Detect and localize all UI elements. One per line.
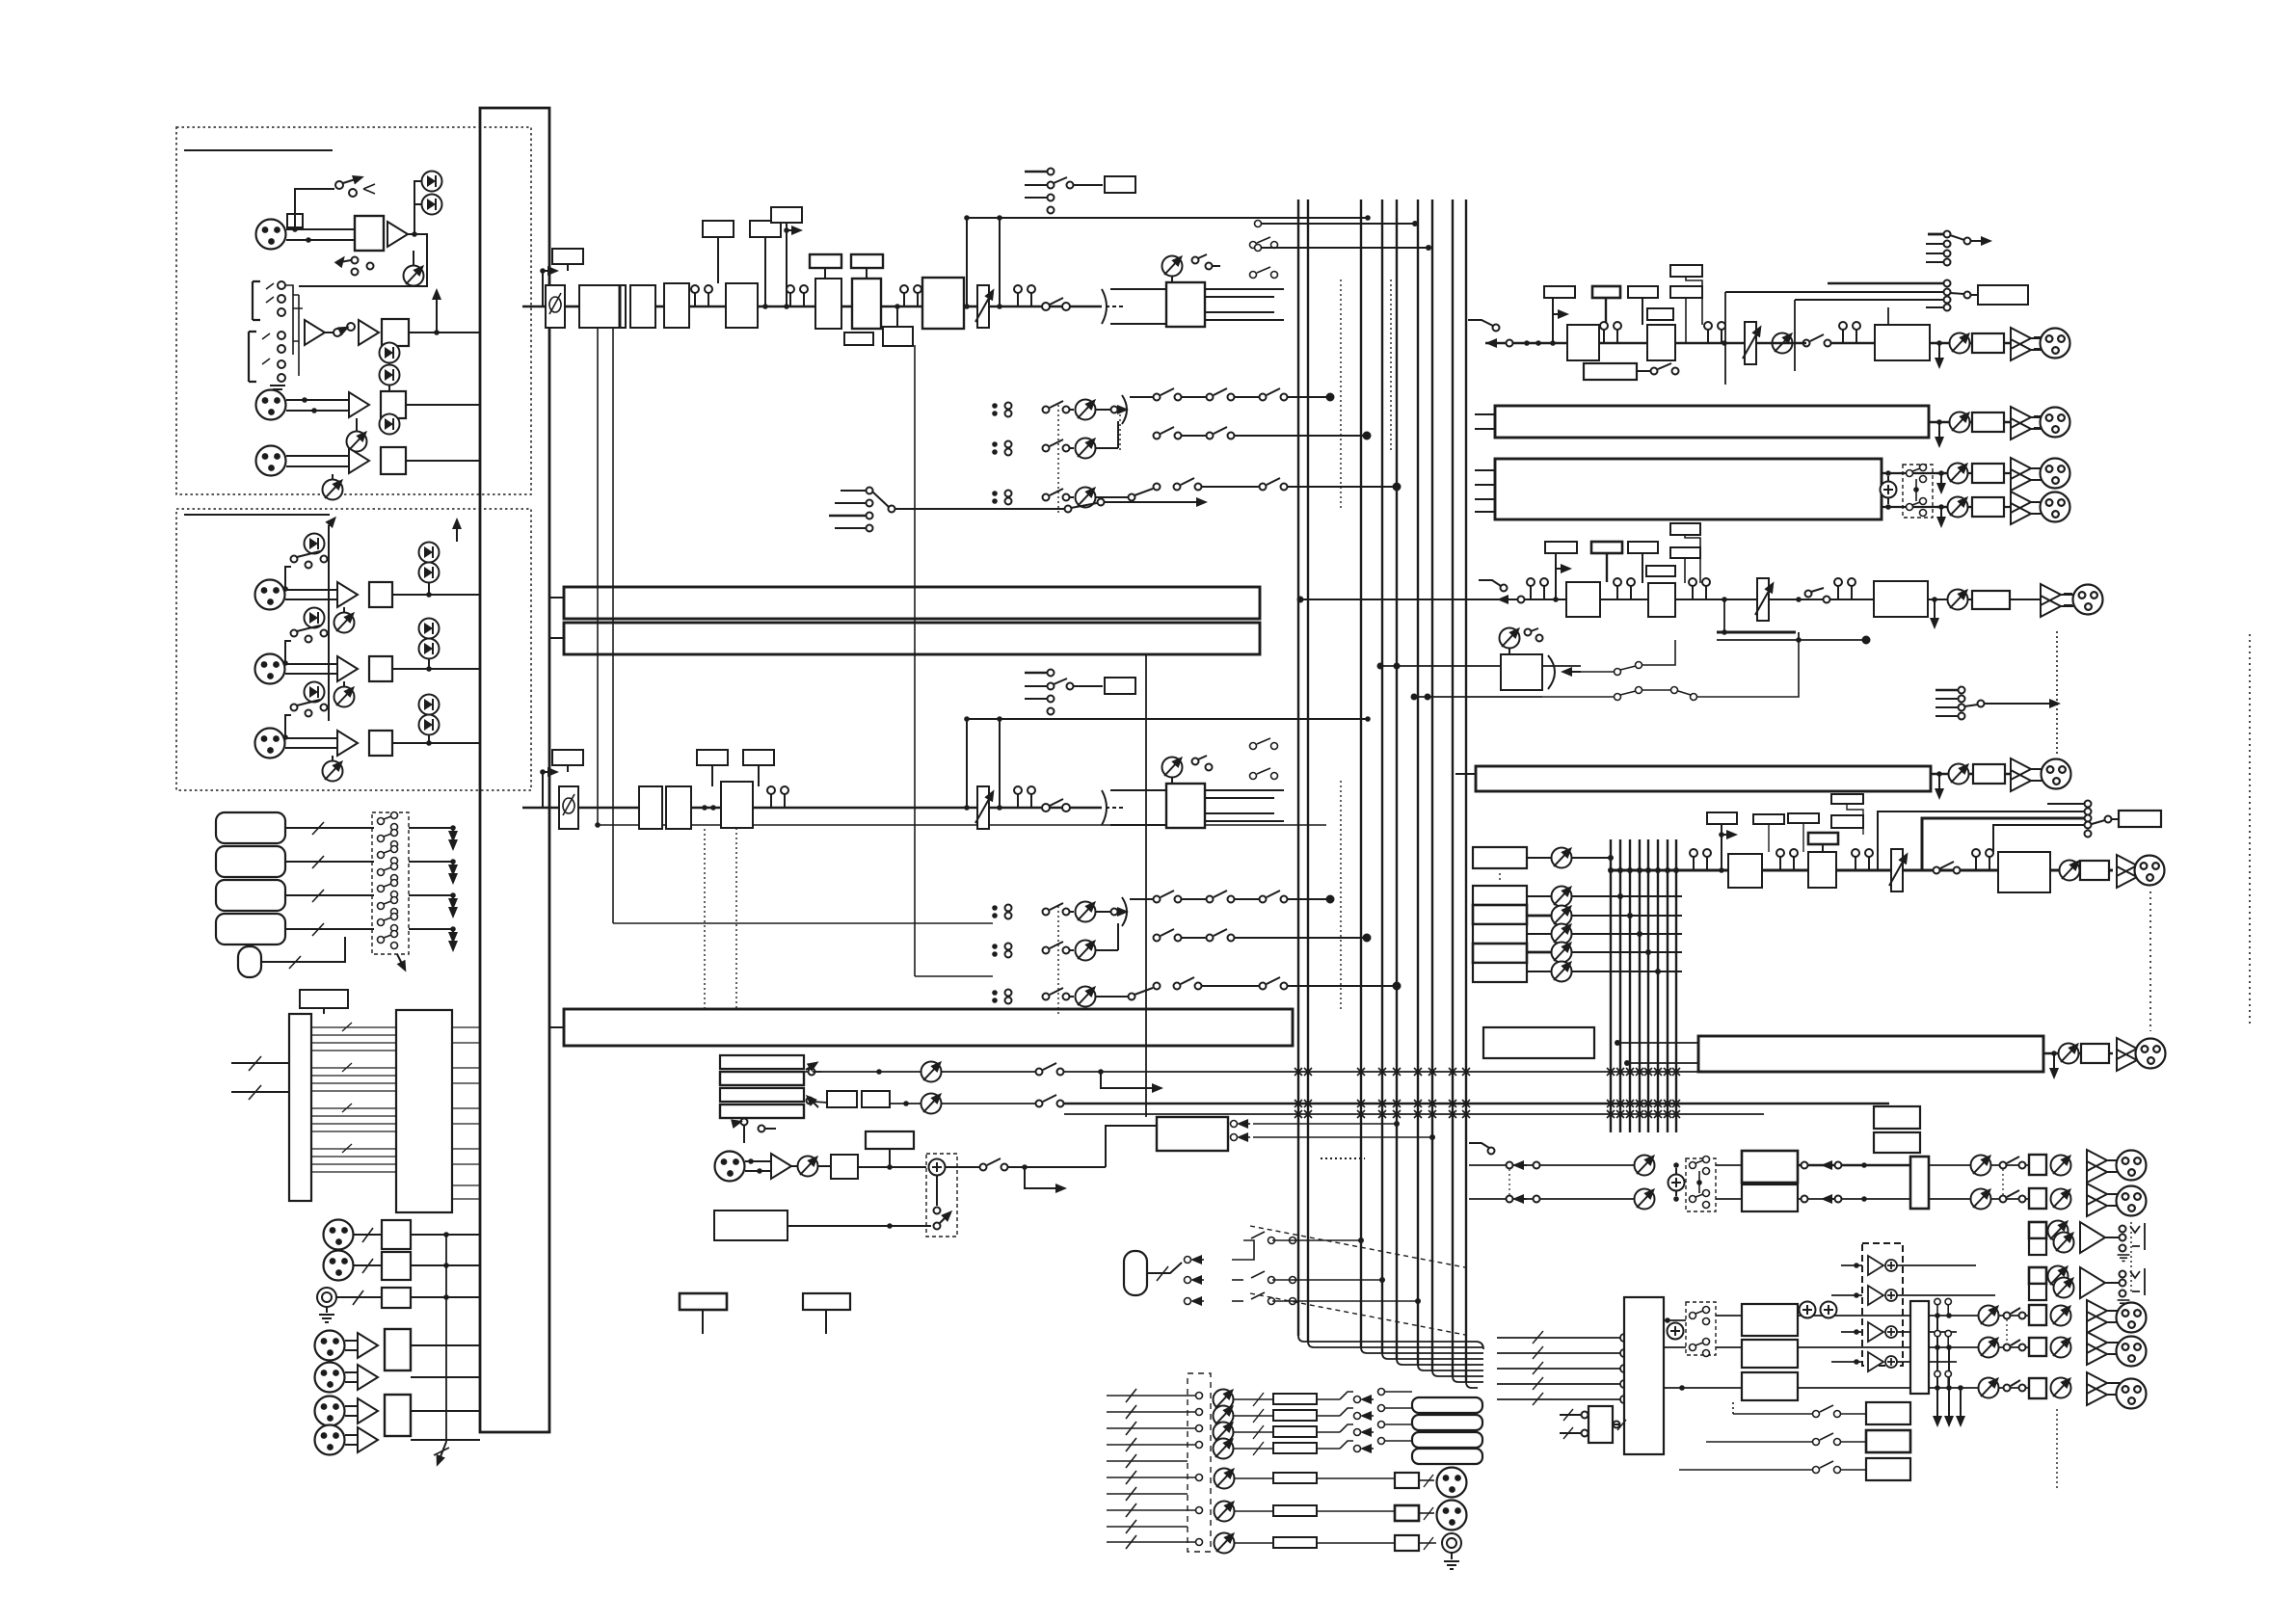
- fader ST: [1889, 849, 1907, 891]
- op-amp A3: [359, 320, 379, 345]
- out chains upper: [1929, 1164, 2029, 1166]
- wire w/ test points: [689, 306, 726, 308]
- switch: [1803, 340, 1810, 347]
- ext in block: [1589, 1406, 1613, 1443]
- wire: [286, 228, 355, 230]
- connector XLR MON B: [2117, 1186, 2147, 1216]
- card slot 2: [216, 846, 285, 877]
- wire pill: [261, 937, 345, 962]
- jack wordclock: [317, 1288, 336, 1307]
- wire card4: [285, 928, 374, 930]
- insert jack TRS2: [249, 332, 256, 382]
- block: [369, 656, 392, 681]
- switch monitor labels: [1679, 1400, 1866, 1474]
- block: [666, 786, 691, 829]
- label box w/ arrow: [771, 207, 802, 223]
- block comp: [1566, 582, 1600, 617]
- op-amp B1: [337, 582, 358, 607]
- label boxes: [1874, 1106, 1920, 1129]
- dashed dim box upper: [1686, 1158, 1716, 1211]
- block ST comp: [1728, 854, 1762, 888]
- connector XLR CR C: [2117, 1379, 2147, 1409]
- block TB: [831, 1155, 858, 1179]
- wire: [392, 594, 480, 596]
- monitor out upper path: [1469, 1164, 1635, 1166]
- wire: [964, 306, 977, 308]
- block: [382, 1220, 411, 1249]
- driver: [2011, 328, 2043, 360]
- connector XLR J3: [256, 446, 286, 476]
- switch matrix link: [1907, 465, 1927, 517]
- wire: [1930, 342, 2011, 344]
- label box: [750, 221, 781, 237]
- label box: [851, 254, 883, 268]
- wire harness matrix-CPU: [311, 1023, 396, 1172]
- switch bus assign 2: [1250, 738, 1278, 780]
- bold assign wires: [1717, 631, 1796, 634]
- main I/O block U100: [480, 108, 549, 1432]
- block ST eq: [1808, 852, 1836, 888]
- block insert2: [1105, 678, 1135, 694]
- fader: [975, 285, 993, 328]
- wire: [285, 589, 337, 591]
- label box bold: [1808, 833, 1838, 844]
- title underline: [184, 514, 330, 516]
- label box comm A: [680, 1293, 727, 1310]
- trim blocks 2-6: [1473, 886, 1527, 905]
- routing from blocks: [1798, 1164, 1910, 1167]
- wire: [285, 737, 337, 739]
- card slot 3: [216, 880, 285, 911]
- op-amp: [358, 1398, 378, 1423]
- pot: [334, 613, 355, 633]
- wire card1: [285, 827, 374, 829]
- bus bar AUX1: [1495, 406, 1929, 438]
- wire: [409, 332, 480, 333]
- bus bar GROUP2: [564, 623, 1260, 654]
- LED pair: [419, 695, 440, 715]
- bus wire vertical: [328, 525, 330, 721]
- switch mode selector: [829, 488, 1205, 532]
- label box: [1831, 815, 1863, 828]
- label box: [300, 990, 348, 1008]
- ground: [270, 386, 285, 393]
- block PAN: [1166, 282, 1205, 327]
- wire: [655, 306, 664, 308]
- op-amp B2: [337, 656, 358, 681]
- card slot 1: [216, 812, 285, 843]
- aux monitor select rows: [2047, 803, 2084, 805]
- block aux small: [844, 333, 873, 345]
- LED pair: [380, 414, 400, 435]
- block AES: [385, 1329, 411, 1370]
- block link: [1584, 363, 1637, 380]
- label box: [552, 249, 583, 264]
- wire: [408, 233, 418, 235]
- pill connector: [238, 946, 261, 977]
- block ST bal: [1998, 852, 2050, 892]
- label box: [703, 221, 734, 237]
- phase block: [546, 285, 565, 328]
- pan feed curve: [1102, 289, 1107, 324]
- matrix block: [1495, 459, 1882, 519]
- op-amp 2TR drivers: [1831, 1256, 1995, 1371]
- LED pair: [380, 343, 400, 363]
- dotted leader: [2056, 631, 2058, 754]
- mono bus bar: [1698, 1036, 2043, 1072]
- connector XLR MON A: [2117, 1151, 2147, 1181]
- wire matrix input rows: [1107, 1389, 1203, 1549]
- pot: [323, 761, 343, 782]
- LED: [305, 682, 325, 703]
- wire insert bus: [285, 285, 303, 355]
- wire: [841, 306, 852, 308]
- resistor network rows: [1234, 1393, 1317, 1548]
- block GEQ: [1874, 581, 1928, 617]
- toggle arrow: [397, 954, 405, 970]
- OR combiner: [1501, 654, 1542, 690]
- connector XLR J5: [255, 654, 285, 684]
- pan feed curve: [1102, 790, 1107, 825]
- block: [1972, 591, 2010, 609]
- LED SIG1: [422, 195, 442, 215]
- wire: [325, 332, 334, 333]
- connector XLR AUXM: [2073, 585, 2103, 615]
- block aux mon: [2119, 811, 2161, 827]
- wire: [406, 460, 480, 462]
- block AES2: [385, 1395, 411, 1436]
- aux send 1 row: [992, 388, 1333, 424]
- pan pot: [1162, 758, 1183, 778]
- title underline: [184, 149, 333, 151]
- pan pot: [1162, 256, 1183, 277]
- meter block: [1483, 1027, 1594, 1058]
- aux insert cluster: [1936, 689, 1958, 692]
- stub wires into bar: [1475, 413, 1495, 415]
- bus wires group A: [1298, 200, 1466, 1382]
- ST labels extra: [1753, 814, 1784, 824]
- comm bar 1: [720, 1055, 804, 1069]
- pot: [1950, 333, 1970, 354]
- aux send 4 row: [992, 891, 1333, 926]
- connector XLR J10: [324, 1220, 354, 1250]
- block: [1395, 1473, 1419, 1488]
- wire: [286, 399, 349, 401]
- block ATT: [726, 283, 758, 328]
- block comp: [1567, 325, 1599, 360]
- connector XLR CR A: [2117, 1303, 2147, 1333]
- label box: [1670, 523, 1700, 535]
- label box: [1592, 286, 1620, 298]
- block eq: [1647, 325, 1675, 360]
- strip1 outputs to bus: [1205, 288, 1284, 290]
- switch: [291, 630, 298, 637]
- external port lines: [231, 1062, 289, 1064]
- wire bus input rows: [1255, 221, 1432, 252]
- connector XLR J2: [256, 390, 286, 420]
- wire: [406, 404, 480, 406]
- sum: [1882, 472, 1950, 474]
- up arrow feed: [456, 520, 458, 542]
- label box low: [1647, 308, 1673, 320]
- block: [381, 447, 406, 474]
- mono input group dashed box: [176, 127, 531, 494]
- insert selector 2: [1025, 672, 1047, 675]
- buffer column block: [289, 1014, 311, 1201]
- transformer T1: [355, 216, 384, 251]
- dashed trim box: [1188, 1373, 1211, 1552]
- comm bar 2: [720, 1072, 804, 1085]
- switch comm assign: [1231, 1121, 1436, 1141]
- aux send 6 row: [992, 977, 1400, 1007]
- pad resistor: [287, 214, 303, 227]
- block rec: [1978, 285, 2028, 305]
- aux send 2 row: [992, 421, 1370, 459]
- connector XLR TB: [715, 1152, 745, 1182]
- block: [369, 731, 392, 756]
- switch above: [741, 1119, 748, 1126]
- aux send 3 row: [992, 478, 1400, 508]
- wire: [285, 663, 337, 665]
- wire TB out: [946, 1166, 979, 1168]
- connector XLR J1: [256, 220, 286, 250]
- block: [639, 786, 662, 829]
- wire: [392, 668, 480, 670]
- comm bar 3: [720, 1088, 804, 1102]
- connector XLR CR B: [2117, 1337, 2147, 1367]
- monitor lower paths: [1664, 1319, 1686, 1321]
- connector XLR MTXO2: [1437, 1501, 1467, 1530]
- op-amp A4: [349, 392, 369, 417]
- op-amp TB: [771, 1154, 791, 1179]
- dashed dim box lower: [1686, 1302, 1716, 1355]
- connector XLR MTXO1: [1437, 1468, 1467, 1498]
- tall block lower: [1910, 1301, 1929, 1394]
- connector XLR ST: [2135, 856, 2165, 886]
- wire bus bends: [1298, 1336, 1483, 1388]
- label box: [552, 750, 583, 765]
- strip1 down-feeds: [597, 328, 599, 825]
- LED pair: [419, 619, 440, 639]
- wire: [295, 189, 334, 229]
- 2TR rec dashed box: [1862, 1243, 1903, 1366]
- monitor selector cluster: [1928, 233, 1943, 236]
- switch pad: [335, 181, 343, 189]
- row B: [807, 1098, 814, 1104]
- LED: [305, 608, 325, 628]
- block: [382, 1252, 411, 1280]
- op-amp B3: [337, 731, 358, 756]
- direct out wire 2: [967, 718, 1368, 720]
- fader: [975, 786, 993, 829]
- bus bar MIX: [564, 1009, 1293, 1046]
- comm bar 4: [720, 1104, 804, 1118]
- op-amp A2: [305, 320, 325, 345]
- out rows to connectors: [1317, 1477, 1395, 1479]
- rec selector cluster: [1828, 282, 1943, 285]
- row A: [804, 1071, 821, 1073]
- tall block CR level: [1910, 1157, 1929, 1209]
- bus bar GROUP1: [564, 587, 1260, 619]
- wire: [758, 306, 815, 308]
- fader: [1743, 322, 1760, 364]
- switch dim upper: [1690, 1157, 1710, 1209]
- block below: [883, 327, 913, 346]
- label box: [1544, 286, 1575, 298]
- label box: [1628, 542, 1658, 553]
- wire: [392, 742, 480, 744]
- dashed link box: [1903, 465, 1933, 518]
- pot: [2060, 861, 2080, 881]
- mono input group 2 dashed box: [176, 509, 531, 790]
- block: [2080, 861, 2109, 880]
- connector XLR J6: [255, 729, 285, 758]
- connector XLR J11: [324, 1251, 354, 1281]
- connector XLR AUX2: [2042, 759, 2071, 789]
- block: [664, 283, 689, 328]
- connector XLR J14: [315, 1397, 345, 1426]
- pot: [1773, 333, 1793, 354]
- connector XLR MONO: [2136, 1039, 2166, 1069]
- wire outs with arrows: [409, 827, 453, 829]
- osc pill: [1124, 1251, 1147, 1295]
- wire: [753, 807, 977, 810]
- out chains lower: [1929, 1315, 2029, 1317]
- sync bus vertical wire: [445, 1235, 447, 1442]
- wire aux feed row: [1300, 599, 1471, 600]
- block DELAY: [922, 278, 964, 329]
- block comm assign: [1157, 1117, 1228, 1151]
- block: [630, 285, 655, 328]
- op-amp: [358, 1365, 378, 1390]
- op-amp A5: [349, 448, 369, 473]
- wire card2: [285, 861, 374, 863]
- connector XLR J12: [315, 1331, 345, 1361]
- block ADC: [579, 285, 626, 328]
- pot: [798, 1157, 818, 1177]
- monitor source bars: [1412, 1397, 1482, 1413]
- aux send 5 row: [992, 923, 1370, 961]
- connector XLR MTX2: [2041, 492, 2070, 522]
- block DSP in: [382, 319, 409, 346]
- block EQ: [815, 279, 841, 329]
- label box: [1670, 265, 1702, 277]
- wire harness CPU-main: [452, 1027, 480, 1199]
- wire: [989, 306, 1102, 308]
- outputs to bus: [1205, 789, 1284, 791]
- label boxes lower right: [1866, 1402, 1910, 1424]
- LED: [305, 534, 325, 554]
- CPU block: [396, 1010, 452, 1212]
- block: [369, 582, 392, 607]
- direct out wire: [967, 217, 1368, 219]
- monitor select block: [1624, 1297, 1664, 1454]
- switch bus assign 1: [1250, 237, 1278, 279]
- insert send selector top: [1025, 171, 1047, 173]
- switch aux assign rows: [1542, 640, 1799, 701]
- phase block: [559, 786, 578, 829]
- fader: [1755, 578, 1773, 621]
- LED PK1: [422, 172, 442, 192]
- connector XLR J4: [255, 580, 285, 610]
- wire card3: [285, 894, 374, 896]
- block: [827, 1091, 857, 1107]
- label box: [743, 750, 774, 765]
- feed wire vertical: [1145, 654, 1147, 1117]
- block eq: [1648, 583, 1675, 617]
- block slate: [714, 1211, 788, 1240]
- connector XLR J15: [315, 1425, 345, 1455]
- switch phantom: [352, 257, 359, 264]
- switch on: [1042, 303, 1050, 310]
- node X junctions: [1295, 1068, 1680, 1118]
- switch: [1934, 867, 1940, 874]
- sum node: [1669, 1175, 1685, 1191]
- LED pair: [419, 543, 440, 563]
- jack out: [1442, 1533, 1461, 1553]
- label box: [1591, 542, 1622, 553]
- label box: [697, 750, 728, 765]
- connector XLR MTX1: [2041, 459, 2070, 489]
- dotted leader: [2130, 1222, 2132, 1291]
- label box comm B: [803, 1293, 850, 1310]
- label box: [1670, 547, 1700, 558]
- switch osc route: [1185, 1232, 1422, 1305]
- switch matrix to monitor: [1317, 1389, 1412, 1452]
- pots: [1214, 1390, 1234, 1410]
- pot: [347, 432, 367, 452]
- block GEQ: [1875, 325, 1930, 360]
- block: [1646, 566, 1675, 576]
- wire monitor feeds: [1497, 1331, 1628, 1405]
- block EQ2: [721, 782, 753, 828]
- blocks upper: [1742, 1151, 1798, 1183]
- block insert: [1105, 176, 1135, 193]
- wire: [522, 306, 546, 308]
- dotted leader: [704, 829, 706, 1009]
- ST main wire: [1611, 869, 2113, 872]
- card slot 4: [216, 914, 285, 945]
- label box EQ: [810, 254, 841, 268]
- block: [382, 1288, 411, 1308]
- wire from bus: [1485, 342, 1567, 344]
- switch: [291, 705, 298, 711]
- dashed sum box: [926, 1154, 957, 1237]
- block PAN2: [1166, 784, 1205, 828]
- label box: [1707, 812, 1737, 824]
- block: [1395, 1505, 1419, 1521]
- label box: [1545, 542, 1577, 553]
- op-amp A1: [387, 222, 408, 247]
- wire: [1599, 342, 1647, 344]
- block: [862, 1091, 890, 1107]
- pot: [323, 480, 343, 500]
- block DYN: [852, 279, 881, 329]
- pot gain: [404, 266, 424, 286]
- label box: [866, 1131, 914, 1149]
- block out amp: [1972, 333, 2004, 353]
- switch: [291, 556, 298, 563]
- blocks lower: [1742, 1304, 1798, 1336]
- pot: [334, 687, 355, 707]
- stub wires: [549, 597, 564, 599]
- label box: [1670, 286, 1702, 298]
- insert jack TRS1: [253, 281, 260, 320]
- bus bar AUX2: [1476, 766, 1931, 791]
- connector XLR J13: [315, 1363, 345, 1393]
- connector XLR MIX1: [2041, 329, 2070, 359]
- pots: [1635, 1156, 1655, 1176]
